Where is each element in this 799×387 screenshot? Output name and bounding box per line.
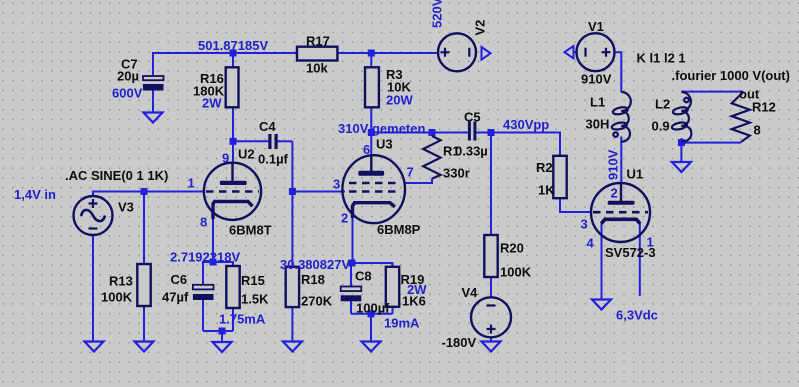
svg-text:100K: 100K	[101, 290, 133, 305]
svg-text:V1: V1	[588, 19, 604, 34]
svg-text:501.87185V: 501.87185V	[198, 38, 268, 53]
svg-text:310V gemeten: 310V gemeten	[338, 121, 425, 136]
svg-text:1.5K: 1.5K	[241, 292, 269, 307]
svg-text:K l1 l2 1: K l1 l2 1	[637, 51, 686, 66]
svg-text:8: 8	[754, 123, 761, 138]
svg-text:8: 8	[200, 215, 207, 230]
svg-text:6BM8T: 6BM8T	[229, 223, 272, 238]
svg-text:R15: R15	[241, 273, 265, 288]
svg-text:20µ: 20µ	[117, 69, 139, 84]
svg-text:9: 9	[222, 151, 229, 166]
svg-text:100µf: 100µf	[356, 301, 390, 316]
svg-text:1.75mA: 1.75mA	[219, 312, 266, 327]
svg-text:30H: 30H	[586, 117, 610, 132]
svg-text:520V: 520V	[430, 0, 445, 28]
svg-text:L2: L2	[655, 97, 670, 112]
svg-text:C6: C6	[171, 272, 188, 287]
svg-text:6,3Vdc: 6,3Vdc	[616, 308, 658, 323]
svg-text:C8: C8	[355, 269, 372, 284]
svg-text:910V: 910V	[581, 72, 612, 87]
svg-text:1K6: 1K6	[402, 294, 426, 309]
svg-text:2.7192218V: 2.7192218V	[170, 250, 240, 265]
svg-text:U2: U2	[238, 147, 255, 162]
svg-text:2: 2	[341, 211, 348, 226]
svg-text:47µf: 47µf	[162, 290, 189, 305]
svg-text:10k: 10k	[306, 61, 328, 76]
svg-text:C4: C4	[259, 119, 276, 134]
svg-text:C5: C5	[464, 110, 481, 125]
svg-text:R17: R17	[306, 34, 330, 49]
svg-text:6BM8P: 6BM8P	[377, 222, 421, 237]
svg-text:4: 4	[587, 236, 595, 251]
svg-text:.fourier 1000 V(out): .fourier 1000 V(out)	[672, 68, 790, 83]
svg-text:-180V: -180V	[442, 335, 477, 350]
svg-text:100K: 100K	[500, 265, 532, 280]
svg-text:0.33µ: 0.33µ	[455, 144, 488, 159]
svg-text:R2: R2	[536, 160, 553, 175]
svg-text:1K: 1K	[538, 183, 555, 198]
svg-text:270K: 270K	[301, 294, 333, 309]
svg-text:2W: 2W	[202, 96, 222, 111]
svg-text:R13: R13	[109, 274, 133, 289]
svg-text:V4: V4	[462, 285, 479, 300]
svg-text:V3: V3	[118, 200, 134, 215]
svg-text:6: 6	[363, 142, 370, 157]
svg-text:SV572-3: SV572-3	[605, 245, 656, 260]
svg-text:3: 3	[581, 217, 588, 232]
svg-text:330r: 330r	[443, 166, 470, 181]
svg-text:3: 3	[333, 177, 340, 192]
svg-text:910V: 910V	[606, 149, 621, 180]
svg-text:L1: L1	[590, 95, 605, 110]
svg-text:19mA: 19mA	[384, 316, 420, 331]
svg-text:V2: V2	[473, 20, 488, 36]
svg-text:.AC SINE(0 1 1K): .AC SINE(0 1 1K)	[65, 168, 168, 183]
svg-text:30.380827V: 30.380827V	[280, 257, 350, 272]
svg-text:U1: U1	[627, 167, 644, 182]
svg-text:R20: R20	[500, 241, 524, 256]
svg-text:U3: U3	[376, 137, 393, 152]
svg-text:20W: 20W	[386, 93, 413, 108]
svg-text:1,4V in: 1,4V in	[14, 187, 56, 202]
svg-text:430Vpp: 430Vpp	[503, 117, 549, 132]
svg-text:2: 2	[611, 186, 618, 201]
svg-text:R12: R12	[752, 100, 776, 115]
svg-text:R18: R18	[301, 272, 325, 287]
svg-text:0.1µf: 0.1µf	[258, 152, 289, 167]
svg-text:600V: 600V	[112, 86, 143, 101]
svg-text:1: 1	[188, 176, 195, 191]
svg-text:0.9: 0.9	[652, 119, 670, 134]
svg-text:7: 7	[407, 165, 414, 180]
